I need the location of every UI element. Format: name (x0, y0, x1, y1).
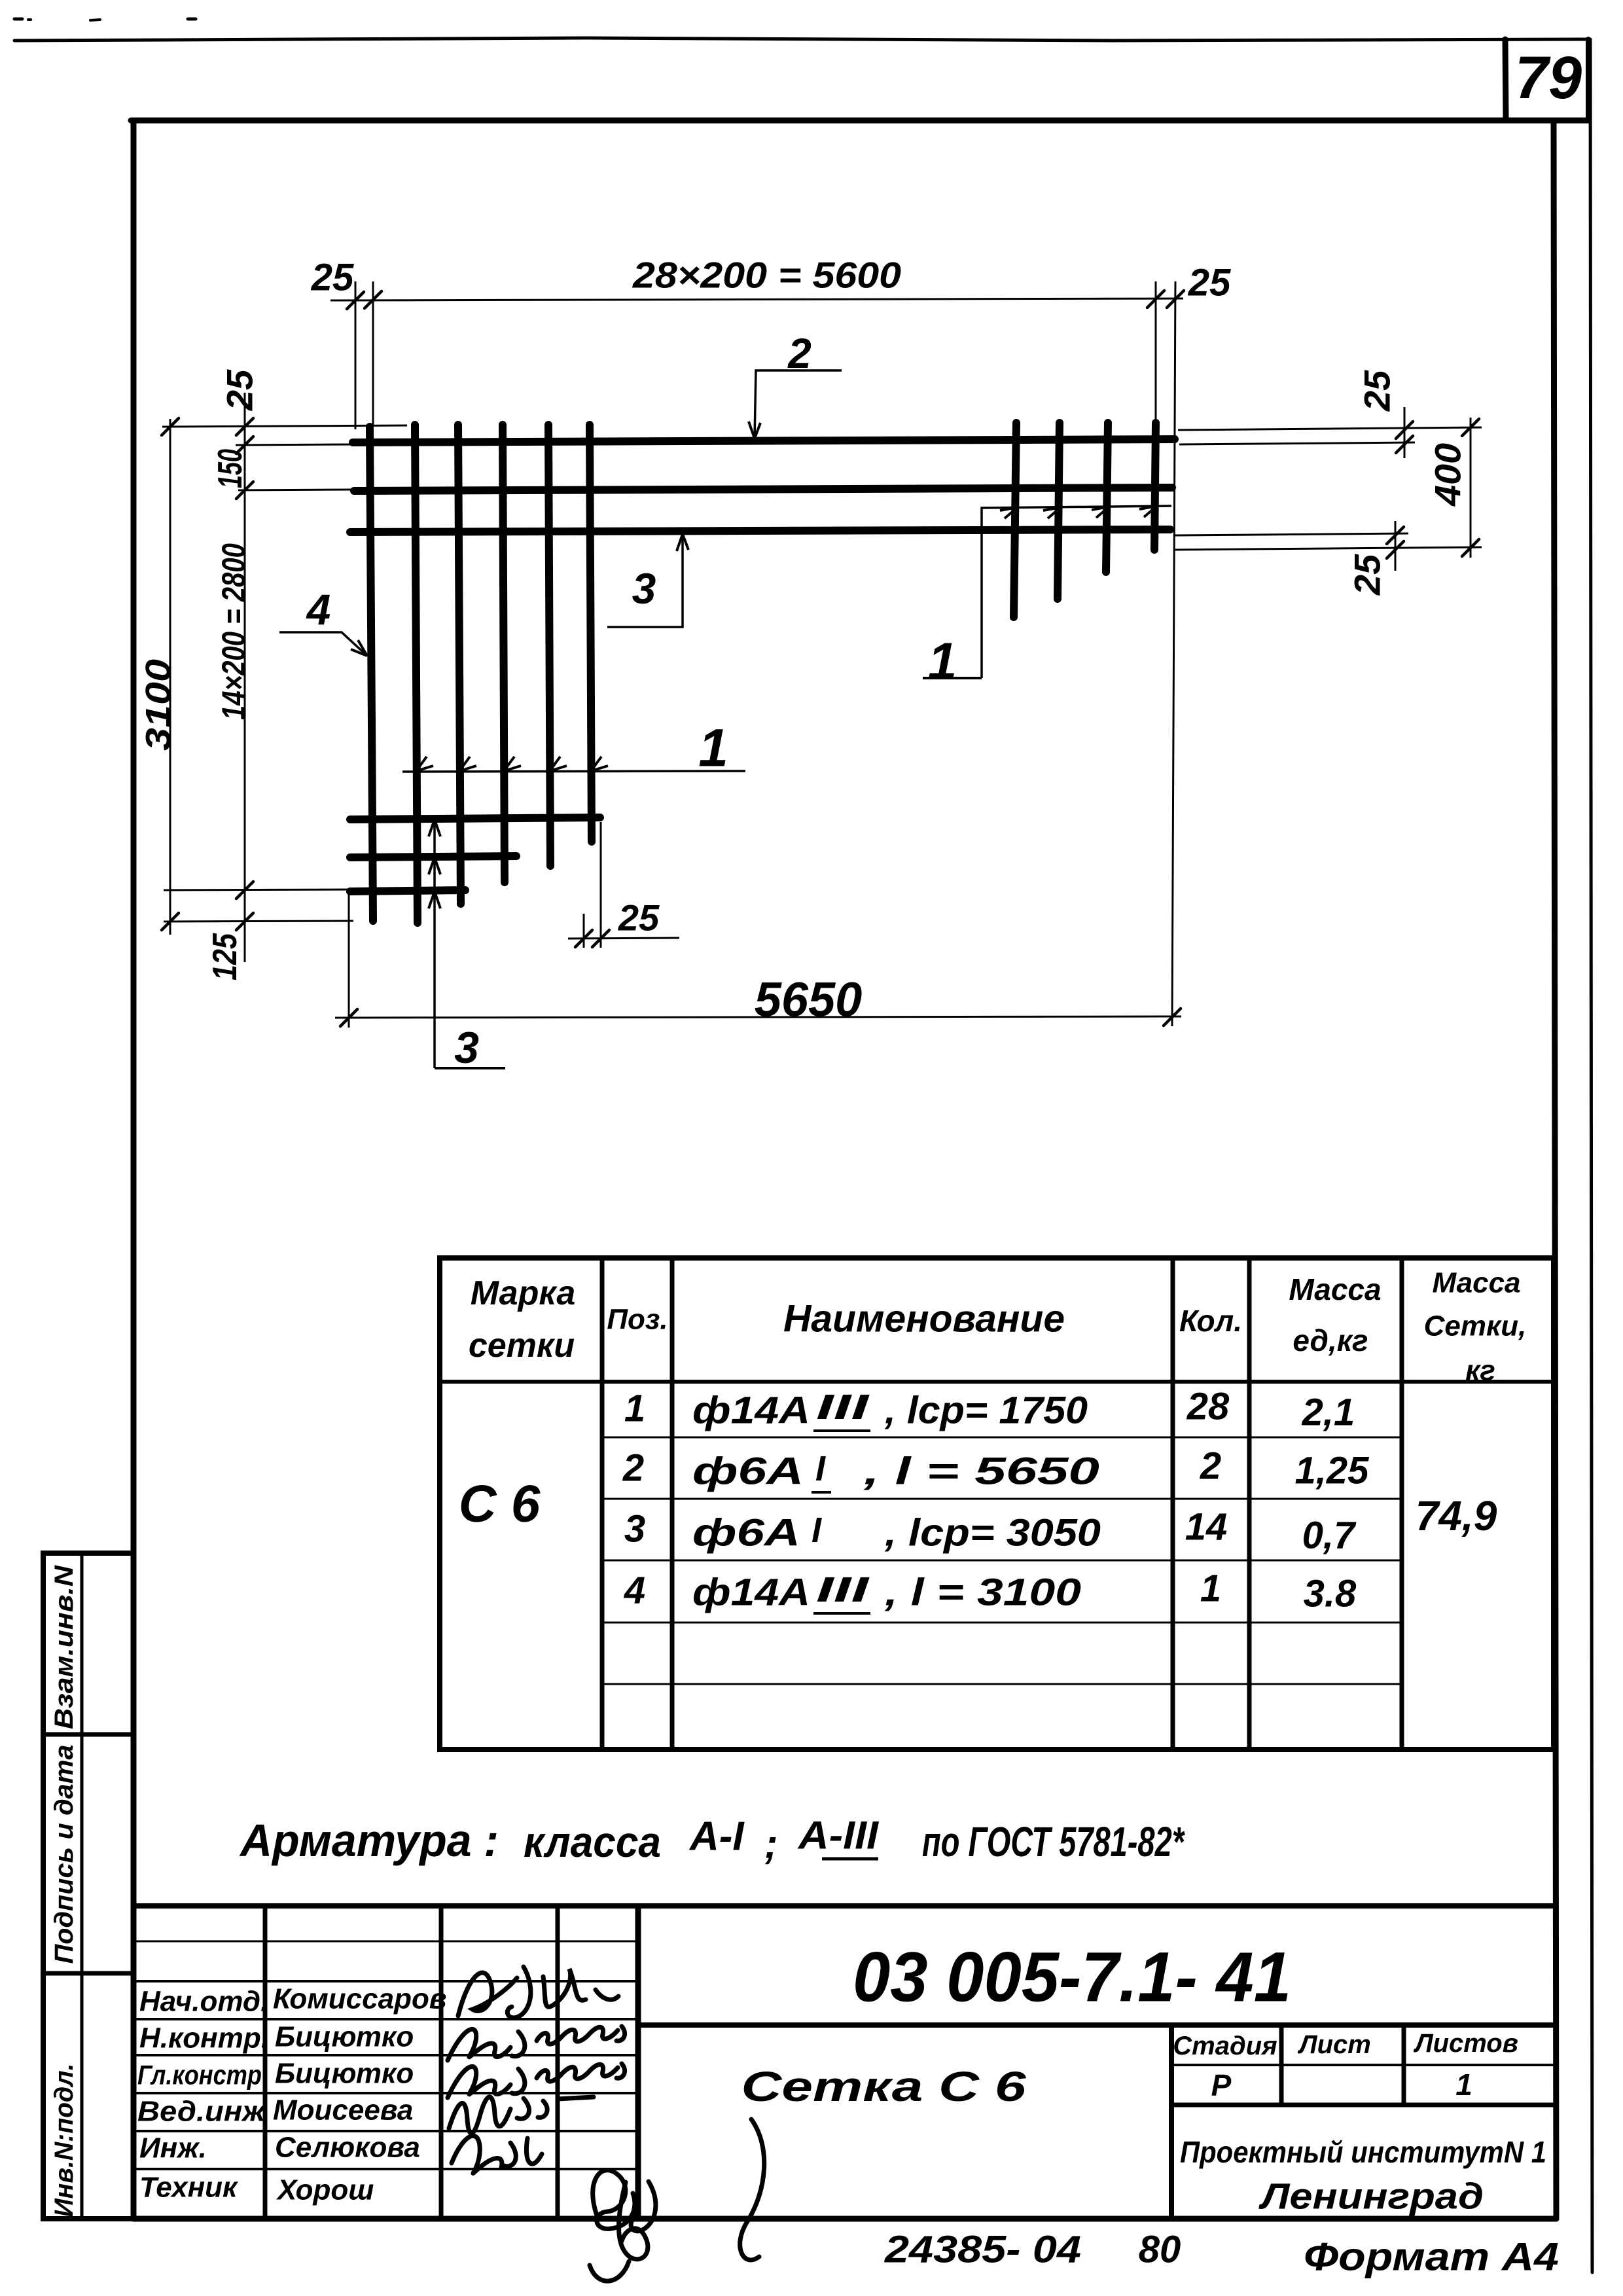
title block row line 7 (134, 2168, 638, 2170)
svg-text:III: III (816, 1570, 870, 1609)
tick 25 mid a (575, 930, 592, 947)
svg-text:1,25: 1,25 (1295, 1450, 1370, 1492)
svg-text:4: 4 (306, 585, 331, 634)
svg-text:Формат А4: Формат А4 (1304, 2235, 1559, 2279)
stadia list column line (1279, 2025, 1284, 2105)
rebar pos.1 vertical bar v6 (590, 425, 592, 842)
extension line y651 bar tips (162, 425, 407, 427)
extension line y748 wire h2 (238, 490, 353, 490)
svg-text:24385- 04: 24385- 04 (884, 2229, 1081, 2271)
top dimension line 28x200=5600 (330, 298, 1183, 300)
svg-text:2: 2 (787, 330, 811, 377)
right dimension line 25 top (1404, 407, 1406, 458)
signature komissarov (458, 1967, 618, 2018)
left margin strip divider row 1 (43, 1732, 134, 1737)
svg-text:Масса: Масса (1289, 1272, 1381, 1306)
signature moiseeva (449, 2097, 594, 2134)
svg-text:1: 1 (1200, 1568, 1221, 1610)
tick 3100 top (162, 418, 179, 435)
tick 400 top (1462, 419, 1479, 436)
extension line left pair x543 (355, 281, 357, 429)
rebar pos.1 vertical bar v7 (1014, 423, 1016, 617)
svg-text:Моисеева: Моисеева (273, 2094, 413, 2126)
svg-text:Взам.инв.N: Взам.инв.N (50, 1565, 79, 1729)
title block row line 6 (134, 2130, 638, 2132)
spec table row line 2 (602, 1498, 1402, 1500)
svg-text:I: I (811, 1511, 822, 1550)
title block row line 3 (134, 2018, 638, 2020)
rebar pos.1 vertical bar v8 (1058, 423, 1060, 599)
title block row line 5 (134, 2092, 638, 2094)
svg-text:14×200 = 2800: 14×200 = 2800 (215, 543, 252, 720)
rebar pos.3 short horizontal wire b2 (350, 856, 516, 857)
svg-text:Селюкова: Селюкова (275, 2132, 420, 2164)
svg-text:03 005-7.1- 41: 03 005-7.1- 41 (853, 1937, 1291, 2017)
svg-text:Проектный институтN 1: Проектный институтN 1 (1180, 2135, 1546, 2169)
tick 25 right bottom b (1387, 541, 1404, 558)
tick top dim at 1766 (1147, 291, 1164, 308)
callout 3 bottom leader (433, 817, 436, 1068)
svg-text:5650: 5650 (755, 973, 863, 1027)
rebar pos.3 short horizontal wire b3 (350, 890, 465, 891)
svg-text:28×200 = 5600: 28×200 = 5600 (632, 255, 901, 296)
svg-text:125: 125 (206, 933, 244, 980)
rebar pos.1 vertical bar v9 (1106, 423, 1108, 572)
drawing frame top border (also bottom of page number box) (131, 118, 1589, 124)
svg-text:Подпись и дата: Подпись и дата (50, 1745, 79, 1964)
spec table row line 3 (602, 1560, 1402, 1562)
callout 3 top leader (607, 534, 683, 627)
extension line left pair x570 (372, 281, 374, 427)
tick top dim at 1796 (1167, 291, 1184, 308)
tick top dim at 543 (347, 292, 364, 309)
tick chain y651 (236, 418, 253, 435)
tick 3100 bottom (162, 913, 179, 930)
spec table row line 4 (602, 1622, 1402, 1624)
rebar pos.1 vertical bar v5 (548, 425, 550, 866)
rebar pos.1 vertical bar v3 (458, 425, 461, 904)
extension line right x1766 (1155, 281, 1157, 424)
svg-text:, lср= 3050: , lср= 3050 (884, 1512, 1101, 1554)
tick chain y1407 (236, 913, 253, 930)
stray ink dashes top-left (14, 18, 22, 21)
svg-text:1: 1 (1455, 2068, 1472, 2102)
svg-text:1: 1 (928, 632, 957, 691)
tick 5650 right (1164, 1009, 1181, 1026)
svg-text:Кол.: Кол. (1179, 1304, 1242, 1338)
svg-text:ед,кг: ед,кг (1293, 1323, 1368, 1357)
left margin strip divider row 2 (43, 1971, 134, 1976)
dimension line 25 bottom middle (568, 938, 679, 939)
right dimension line 25 bottom (1395, 521, 1397, 571)
bottom dimension line 5650 (335, 1016, 1181, 1018)
svg-text:Сетки,: Сетки, (1424, 1310, 1527, 1342)
extension line right x1796 down to 5650 dim (1172, 281, 1175, 1026)
signature bicyutko 1 (448, 2026, 625, 2060)
callout 4 leader (279, 632, 367, 656)
callout 2 leader (755, 370, 842, 439)
svg-text:Арматура :: Арматура : (239, 1815, 499, 1866)
title block top border (134, 1903, 1555, 1909)
spec table column line poz (670, 1258, 675, 1749)
svg-text:ф14А: ф14А (692, 1390, 810, 1432)
title block column c (556, 1906, 560, 2219)
svg-text:А-III: А-III (797, 1814, 880, 1857)
left margin strip outer box (43, 1553, 134, 2219)
left outer dimension line 3100 (169, 419, 171, 935)
drawing frame right border (1554, 120, 1556, 2219)
extension line x533 for 5650 (348, 891, 350, 1028)
svg-text:25: 25 (219, 369, 260, 411)
svg-text:Комиссаров: Комиссаров (273, 1983, 446, 2015)
svg-text:ф6А: ф6А (692, 1512, 800, 1554)
svg-text:кг: кг (1465, 1355, 1495, 1387)
svg-text:Инв.N:подл.: Инв.N:подл. (50, 2064, 79, 2217)
spec table column line naimenovanie (1171, 1258, 1175, 1749)
rebar pos.2 top horizontal wire (353, 439, 1175, 442)
list listov column line (1402, 2025, 1406, 2105)
drawing frame left border (131, 120, 137, 2219)
title block row line 4 (134, 2054, 638, 2056)
extension line y1407 bottom of bars (164, 921, 353, 922)
spec table header bottom line (440, 1380, 1554, 1384)
rebar pos.1 vertical bar v4 (503, 425, 505, 882)
svg-text:I: I (815, 1449, 826, 1488)
title block doc number cell bottom (638, 2022, 1555, 2028)
svg-text:ф6А: ф6А (692, 1450, 804, 1493)
svg-text:25: 25 (618, 897, 660, 939)
svg-text:25: 25 (311, 257, 354, 299)
svg-text:Р: Р (1211, 2068, 1232, 2102)
spec table column line massa (1400, 1258, 1404, 1749)
svg-text:4: 4 (624, 1570, 645, 1612)
spec table column line marka (600, 1258, 605, 1749)
svg-text:3: 3 (624, 1508, 645, 1551)
signature bicyutko 2 (448, 2064, 625, 2098)
tick 5650 left (340, 1009, 357, 1026)
svg-text:сетки: сетки (469, 1327, 575, 1365)
svg-text:79: 79 (1515, 45, 1582, 111)
stadia header underline (1171, 2064, 1555, 2066)
tick chain y748 (236, 482, 253, 499)
svg-text:Поз.: Поз. (607, 1304, 668, 1336)
svg-text:80: 80 (1139, 2229, 1181, 2271)
extension line x892 (583, 914, 585, 948)
svg-text:;: ; (764, 1822, 778, 1867)
svg-text:класса: класса (524, 1818, 661, 1866)
title block row line 1 (134, 1941, 638, 1943)
title block column b (439, 1906, 444, 2219)
callout 1 left leader (402, 771, 745, 772)
title block row line 2 (134, 1980, 638, 1982)
stadia row bottom line (1171, 2103, 1555, 2108)
rebar pos.3 horizontal wire h3 (350, 529, 1170, 532)
svg-text:А-I: А-I (688, 1814, 745, 1859)
svg-text:Листов: Листов (1413, 2029, 1518, 2058)
svg-text:, l = 3100: , l = 3100 (884, 1571, 1081, 1614)
svg-text:Н.контр.: Н.контр. (139, 2022, 269, 2054)
drawing frame bottom border (134, 2216, 1556, 2222)
rebar pos.3 short horizontal wire b1 (350, 817, 600, 819)
signature tekhnik flourish (590, 2170, 656, 2281)
svg-text:ф14А: ф14А (692, 1571, 810, 1614)
title block column a (263, 1906, 268, 2219)
svg-text:2: 2 (1200, 1445, 1221, 1488)
tick chain y679 (236, 437, 253, 454)
rebar pos.1 vertical bar v1 (370, 427, 373, 921)
tick 400 bottom (1462, 539, 1479, 556)
svg-text:Ленинград: Ленинград (1258, 2176, 1484, 2217)
svg-text:Вед.инж: Вед.инж (137, 2096, 267, 2128)
tick top dim at 570 (365, 291, 382, 308)
svg-text:28: 28 (1186, 1386, 1230, 1428)
svg-text:74,9: 74,9 (1416, 1492, 1497, 1539)
outer right page edge line (1590, 39, 1592, 2272)
svg-text:, l = 5650: , l = 5650 (863, 1450, 1099, 1493)
svg-text:2,1: 2,1 (1302, 1391, 1355, 1434)
tick 25 right bottom a (1387, 527, 1404, 544)
tick chain y1359 (236, 882, 253, 899)
extension line x918 (600, 822, 602, 948)
extension line y1359 wire b3 (164, 889, 353, 890)
left inner dimension line chain (244, 393, 246, 962)
page number box (1505, 39, 1506, 120)
svg-text:14: 14 (1185, 1506, 1228, 1549)
left margin strip divider column (80, 1553, 84, 2219)
tick 25 right top b (1396, 436, 1413, 453)
svg-text:1: 1 (624, 1388, 645, 1430)
svg-text:0,7: 0,7 (1302, 1515, 1357, 1557)
svg-text:Хорош: Хорош (276, 2174, 374, 2206)
title block setka cell right divider (1169, 2025, 1174, 2219)
right dimension line 400 (1470, 418, 1472, 558)
svg-text:Марка: Марка (471, 1274, 576, 1312)
svg-text:3.8: 3.8 (1304, 1573, 1357, 1615)
svg-text:Стадия: Стадия (1173, 2032, 1277, 2060)
svg-text:1: 1 (698, 719, 728, 778)
rebar pos.1 vertical bar v10 (1154, 423, 1156, 550)
svg-text:Инж.: Инж. (139, 2132, 207, 2164)
svg-text:III: III (816, 1388, 870, 1427)
callout 1 right leader (982, 506, 1171, 678)
svg-text:25: 25 (1357, 370, 1398, 412)
svg-text:2: 2 (622, 1447, 644, 1490)
svg-text:Сетка С 6: Сетка С 6 (741, 2063, 1027, 2110)
svg-text:Гл.констр: Гл.констр (137, 2060, 262, 2090)
signature big flourish below (619, 2119, 764, 2260)
svg-text:3: 3 (632, 564, 656, 613)
svg-text:С 6: С 6 (459, 1475, 541, 1533)
extension line y679 under top wire (236, 444, 353, 445)
svg-text:150: 150 (211, 449, 249, 488)
svg-text:3: 3 (454, 1023, 479, 1073)
svg-text:по ГОСТ 5781-82*: по ГОСТ 5781-82* (922, 1818, 1185, 1865)
extension line y655 right (1178, 427, 1482, 430)
svg-text:Лист: Лист (1297, 2030, 1371, 2059)
svg-text:Масса: Масса (1432, 1267, 1520, 1299)
svg-text:400: 400 (1427, 443, 1469, 507)
svg-text:Бицютко: Бицютко (275, 2021, 414, 2053)
spec table row line 1 (602, 1437, 1402, 1439)
tick 25 mid b (592, 930, 609, 947)
spec table column line kol (1247, 1258, 1252, 1749)
rebar pos.1 vertical bar v2 (415, 425, 418, 923)
extension line y817 right (1175, 533, 1408, 535)
spec table outer border (440, 1258, 1554, 1749)
svg-text:Техник: Техник (139, 2172, 239, 2204)
extension line y677 right (1179, 442, 1415, 444)
svg-text:25: 25 (1347, 554, 1388, 596)
svg-text:Бицютко: Бицютко (275, 2058, 414, 2090)
extension line y838 right (1175, 547, 1482, 550)
rebar pos.3 horizontal wire h2 (354, 488, 1172, 491)
tick 25 right top a (1396, 422, 1413, 439)
svg-text:3100: 3100 (139, 659, 178, 751)
svg-text:, lср= 1750: , lср= 1750 (884, 1390, 1088, 1432)
svg-text:Нач.отд.: Нач.отд. (139, 1986, 268, 2018)
svg-text:25: 25 (1188, 262, 1231, 304)
spec table row line 5 (602, 1683, 1402, 1685)
page top edge line (14, 38, 1589, 41)
title block main divider (635, 1906, 641, 2219)
signature selyukova (452, 2136, 542, 2173)
svg-text:Наименование: Наименование (783, 1298, 1065, 1340)
